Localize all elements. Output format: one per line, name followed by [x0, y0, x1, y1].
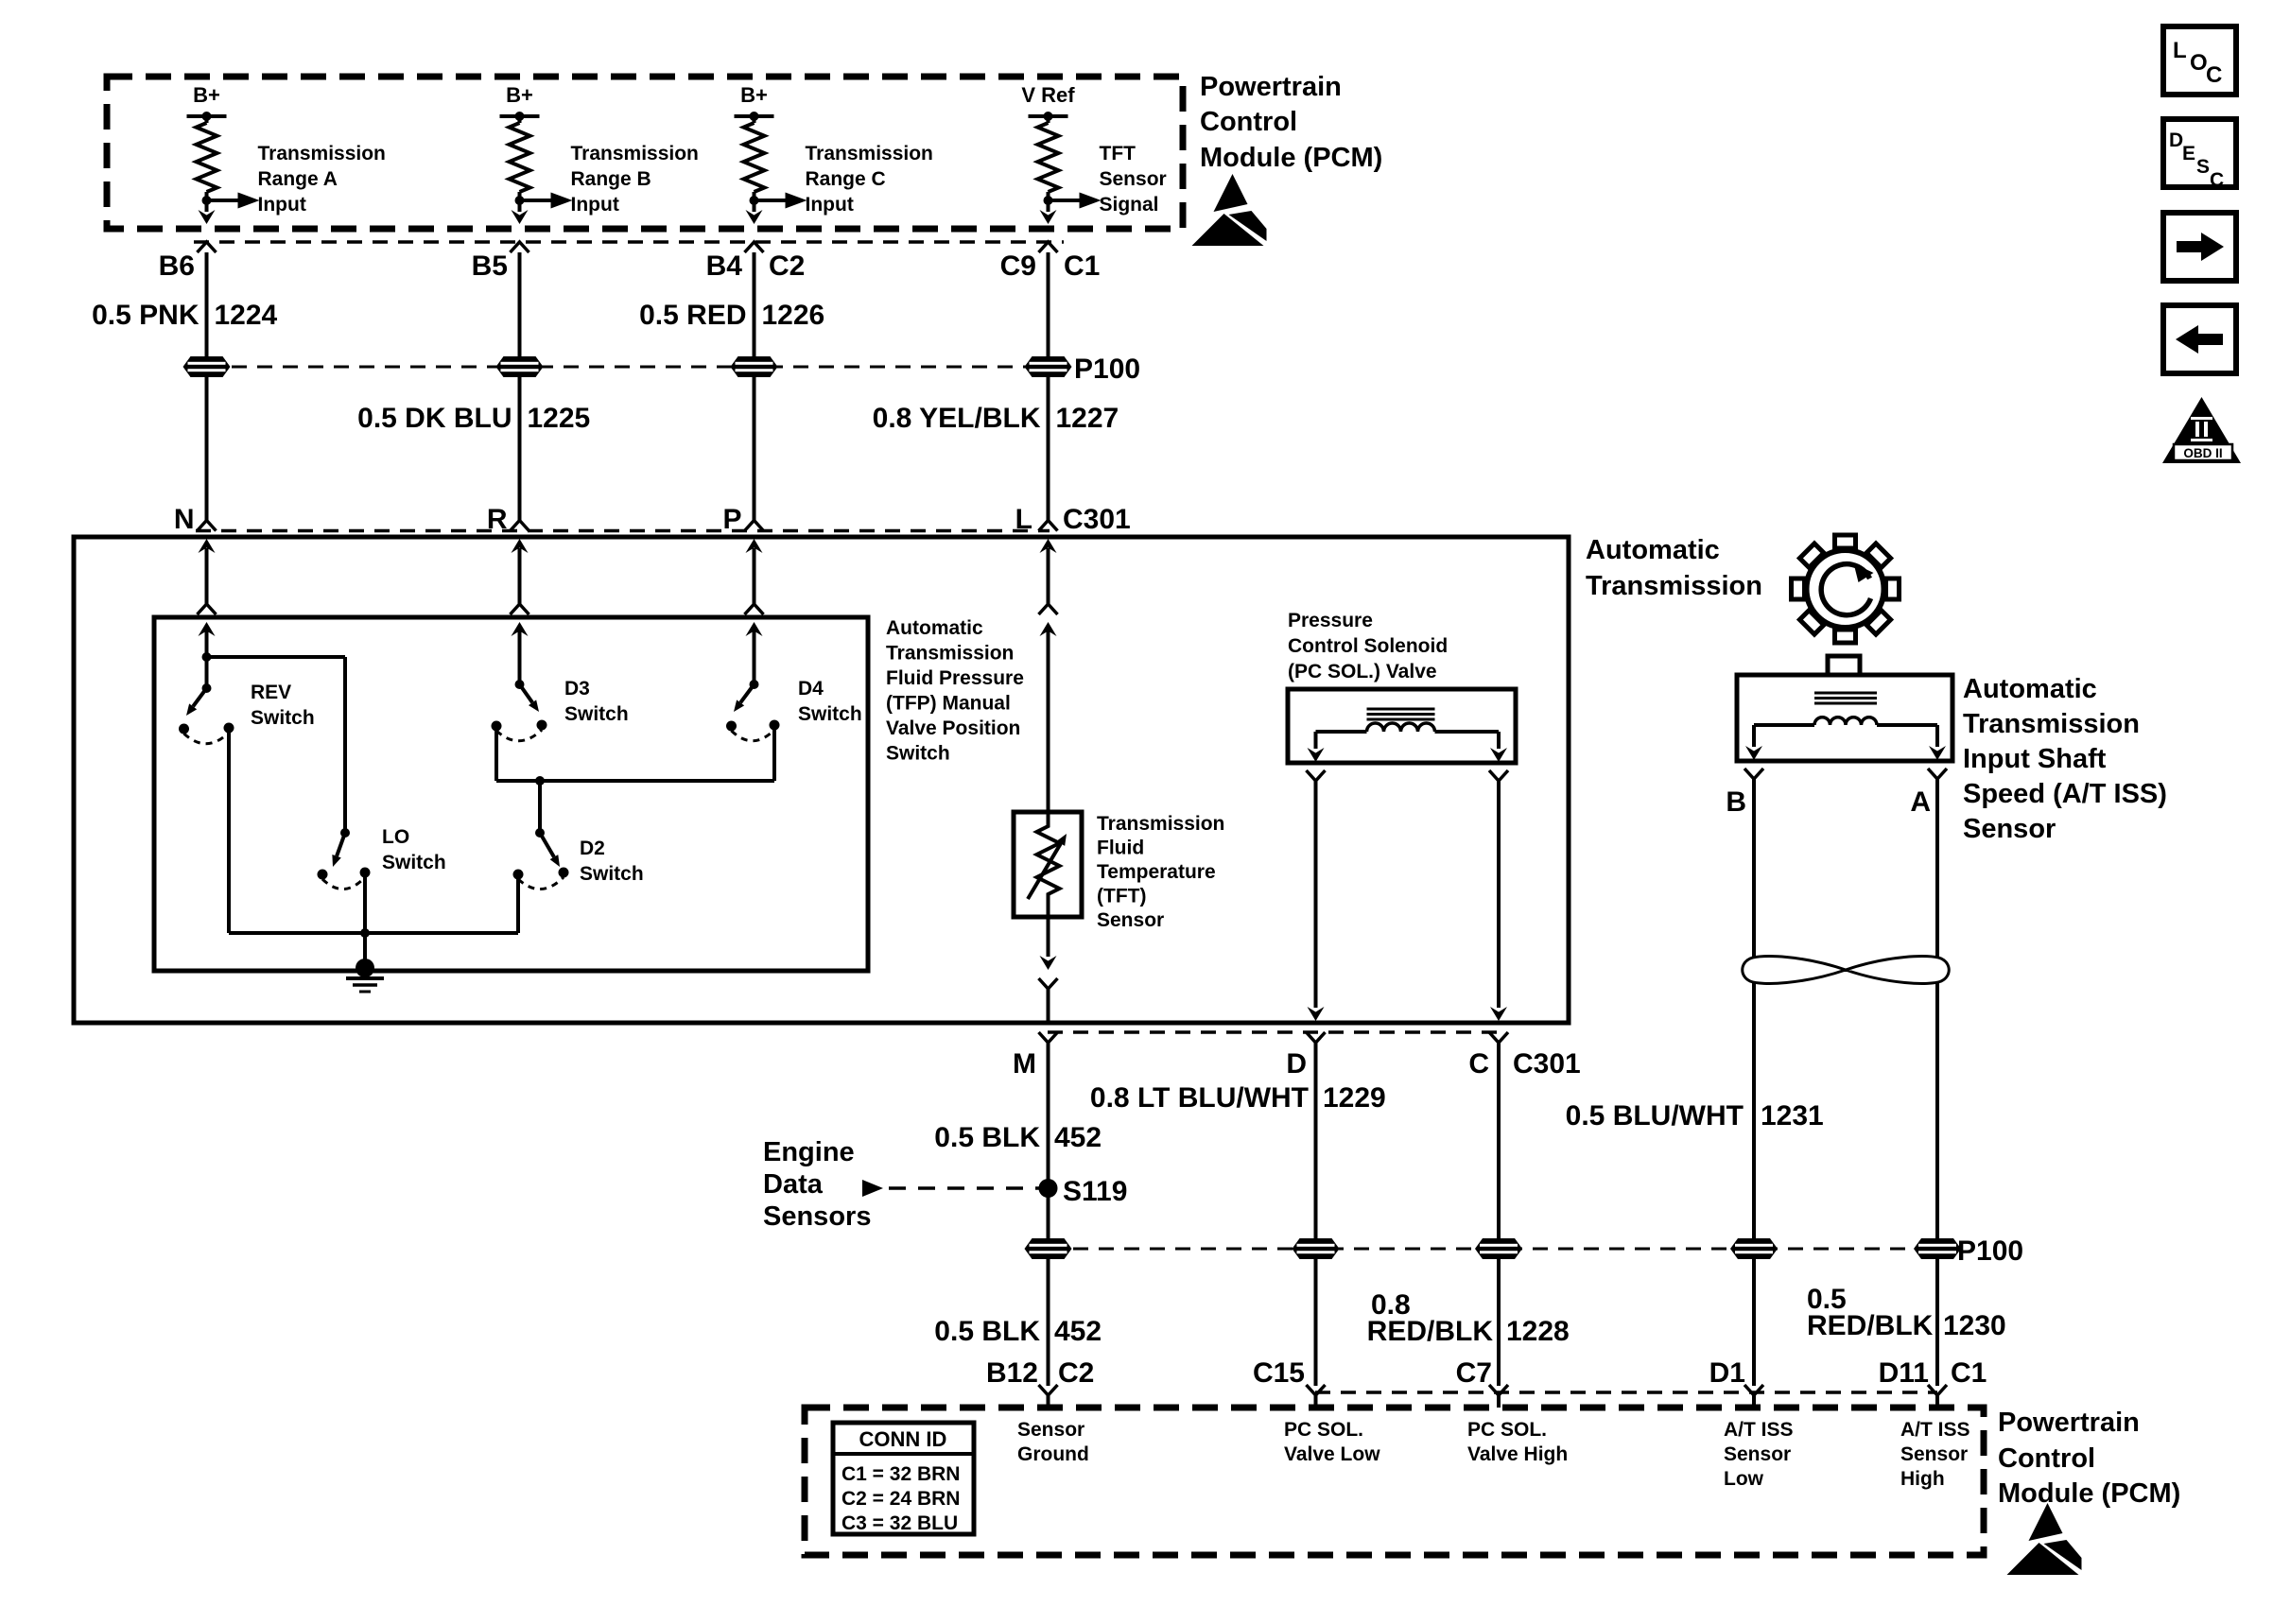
svg-text:Transmission: Transmission	[1097, 813, 1224, 835]
svg-text:Automatic: Automatic	[886, 617, 983, 639]
svg-text:Valve Position: Valve Position	[886, 717, 1020, 739]
svg-text:C301: C301	[1513, 1048, 1581, 1080]
svg-text:Pressure: Pressure	[1288, 610, 1373, 631]
svg-text:Switch: Switch	[564, 703, 629, 725]
svg-text:C1 = 32 BRN: C1 = 32 BRN	[842, 1463, 960, 1485]
svg-text:C3 = 32 BLU: C3 = 32 BLU	[842, 1512, 958, 1534]
svg-text:(PC SOL.) Valve: (PC SOL.) Valve	[1288, 661, 1437, 682]
svg-text:Switch: Switch	[580, 863, 644, 885]
svg-text:Fluid: Fluid	[1097, 838, 1144, 859]
svg-text:C1: C1	[1064, 251, 1100, 282]
svg-text:Module (PCM): Module (PCM)	[1200, 143, 1382, 173]
svg-text:Sensors: Sensors	[763, 1201, 871, 1232]
svg-text:Powertrain: Powertrain	[1998, 1408, 2140, 1438]
svg-text:V Ref: V Ref	[1021, 83, 1075, 107]
svg-text:Range A: Range A	[258, 168, 338, 190]
svg-text:0.5 BLK: 0.5 BLK	[934, 1122, 1040, 1153]
svg-text:Ground: Ground	[1017, 1443, 1089, 1465]
svg-text:R: R	[487, 504, 508, 535]
svg-text:E: E	[2182, 143, 2195, 164]
svg-text:B+: B+	[193, 83, 220, 107]
svg-text:C2 = 24 BRN: C2 = 24 BRN	[842, 1488, 960, 1510]
svg-text:Data: Data	[763, 1169, 824, 1200]
svg-text:LO: LO	[382, 826, 409, 848]
svg-text:Input Shaft: Input Shaft	[1963, 744, 2107, 774]
svg-text:1227: 1227	[1056, 403, 1119, 434]
svg-text:0.5 BLK: 0.5 BLK	[934, 1316, 1040, 1347]
svg-text:C9: C9	[1000, 251, 1036, 282]
svg-text:Sensor: Sensor	[1963, 814, 2056, 844]
svg-text:1228: 1228	[1506, 1316, 1570, 1347]
svg-text:A: A	[1910, 786, 1931, 818]
svg-text:Sensor: Sensor	[1724, 1443, 1791, 1465]
svg-text:1224: 1224	[215, 300, 278, 331]
svg-text:1231: 1231	[1761, 1100, 1824, 1132]
svg-text:Transmission: Transmission	[886, 643, 1014, 665]
svg-text:1225: 1225	[528, 403, 591, 434]
svg-text:Control: Control	[1200, 107, 1297, 137]
svg-text:C301: C301	[1063, 504, 1131, 535]
svg-text:A/T ISS: A/T ISS	[1900, 1419, 1970, 1441]
svg-text:D1: D1	[1709, 1357, 1745, 1389]
svg-text:Fluid Pressure: Fluid Pressure	[886, 667, 1024, 689]
svg-text:C2: C2	[769, 251, 805, 282]
svg-text:RED/BLK: RED/BLK	[1367, 1316, 1494, 1347]
svg-text:RED/BLK: RED/BLK	[1807, 1310, 1934, 1341]
svg-text:Sensor: Sensor	[1100, 168, 1167, 190]
svg-text:PC SOL.: PC SOL.	[1467, 1419, 1547, 1441]
svg-text:N: N	[174, 504, 195, 535]
svg-text:Low: Low	[1724, 1468, 1764, 1490]
svg-text:Switch: Switch	[382, 852, 446, 873]
svg-text:0.8 LT BLU/WHT: 0.8 LT BLU/WHT	[1090, 1082, 1309, 1114]
svg-text:D: D	[1286, 1048, 1307, 1080]
svg-text:Range C: Range C	[806, 168, 886, 190]
svg-text:D3: D3	[564, 678, 590, 700]
svg-text:Range B: Range B	[571, 168, 651, 190]
svg-text:O: O	[2190, 50, 2208, 76]
svg-text:P100: P100	[1957, 1235, 2023, 1267]
svg-text:1226: 1226	[762, 300, 825, 331]
svg-text:0.5 BLU/WHT: 0.5 BLU/WHT	[1566, 1100, 1744, 1132]
svg-text:Signal: Signal	[1100, 194, 1159, 216]
svg-text:REV: REV	[251, 682, 291, 703]
svg-text:Input: Input	[571, 194, 619, 216]
svg-text:Transmission: Transmission	[571, 143, 699, 164]
svg-text:D11: D11	[1879, 1357, 1929, 1389]
svg-text:(TFP) Manual: (TFP) Manual	[886, 693, 1011, 715]
svg-text:Speed (A/T ISS): Speed (A/T ISS)	[1963, 779, 2167, 809]
svg-text:D: D	[2169, 130, 2183, 151]
svg-text:A/T ISS: A/T ISS	[1724, 1419, 1794, 1441]
svg-text:C15: C15	[1253, 1357, 1305, 1389]
svg-text:OBD II: OBD II	[2183, 446, 2222, 460]
svg-text:TFT: TFT	[1100, 143, 1136, 164]
svg-text:L: L	[1015, 504, 1032, 535]
svg-text:0.8 YEL/BLK: 0.8 YEL/BLK	[873, 403, 1041, 434]
svg-text:B6: B6	[159, 251, 195, 282]
svg-text:0.5 RED: 0.5 RED	[639, 300, 746, 331]
svg-text:Transmission: Transmission	[1586, 571, 1762, 601]
svg-text:L: L	[2173, 38, 2187, 63]
svg-text:Sensor: Sensor	[1900, 1443, 1968, 1465]
svg-text:B+: B+	[506, 83, 533, 107]
svg-text:Valve High: Valve High	[1467, 1443, 1568, 1465]
svg-text:Valve Low: Valve Low	[1284, 1443, 1380, 1465]
svg-text:B5: B5	[472, 251, 508, 282]
svg-text:Switch: Switch	[251, 707, 315, 729]
svg-text:C7: C7	[1456, 1357, 1492, 1389]
svg-text:B+: B+	[740, 83, 768, 107]
svg-text:1229: 1229	[1323, 1082, 1386, 1114]
svg-text:S: S	[2196, 156, 2210, 178]
svg-text:High: High	[1900, 1468, 1945, 1490]
svg-text:C1: C1	[1951, 1357, 1987, 1389]
svg-text:B12: B12	[986, 1357, 1038, 1389]
svg-text:P100: P100	[1074, 354, 1140, 385]
svg-text:Sensor: Sensor	[1017, 1419, 1084, 1441]
svg-text:D2: D2	[580, 838, 605, 859]
svg-text:Automatic: Automatic	[1586, 535, 1720, 565]
svg-text:C: C	[2210, 169, 2224, 191]
svg-text:Input: Input	[806, 194, 854, 216]
svg-text:Control: Control	[1998, 1443, 2095, 1474]
svg-text:M: M	[1013, 1048, 1036, 1080]
svg-text:0.5 DK BLU: 0.5 DK BLU	[357, 403, 512, 434]
svg-text:Transmission: Transmission	[806, 143, 933, 164]
svg-text:C2: C2	[1058, 1357, 1094, 1389]
svg-text:Switch: Switch	[798, 703, 862, 725]
svg-text:B4: B4	[706, 251, 743, 282]
svg-text:0.5 PNK: 0.5 PNK	[92, 300, 200, 331]
svg-text:452: 452	[1054, 1316, 1102, 1347]
svg-text:PC SOL.: PC SOL.	[1284, 1419, 1363, 1441]
svg-text:Input: Input	[258, 194, 306, 216]
svg-text:Temperature: Temperature	[1097, 861, 1216, 883]
svg-text:S119: S119	[1063, 1176, 1127, 1207]
svg-text:Engine: Engine	[763, 1137, 855, 1167]
svg-text:Sensor: Sensor	[1097, 909, 1164, 931]
svg-text:(TFT): (TFT)	[1097, 886, 1146, 907]
svg-text:Switch: Switch	[886, 743, 950, 765]
svg-text:Automatic: Automatic	[1963, 674, 2097, 704]
svg-text:Powertrain: Powertrain	[1200, 72, 1342, 102]
svg-text:Control Solenoid: Control Solenoid	[1288, 635, 1448, 657]
svg-text:Transmission: Transmission	[1963, 709, 2140, 739]
svg-text:C: C	[1468, 1048, 1489, 1080]
svg-text:D4: D4	[798, 678, 824, 700]
svg-text:CONN ID: CONN ID	[859, 1427, 947, 1451]
svg-text:C: C	[2206, 62, 2222, 88]
svg-text:452: 452	[1054, 1122, 1102, 1153]
svg-text:Transmission: Transmission	[258, 143, 386, 164]
svg-text:B: B	[1726, 786, 1746, 818]
svg-text:P: P	[722, 504, 741, 535]
svg-text:1230: 1230	[1943, 1310, 2006, 1341]
svg-text:Module (PCM): Module (PCM)	[1998, 1478, 2180, 1509]
